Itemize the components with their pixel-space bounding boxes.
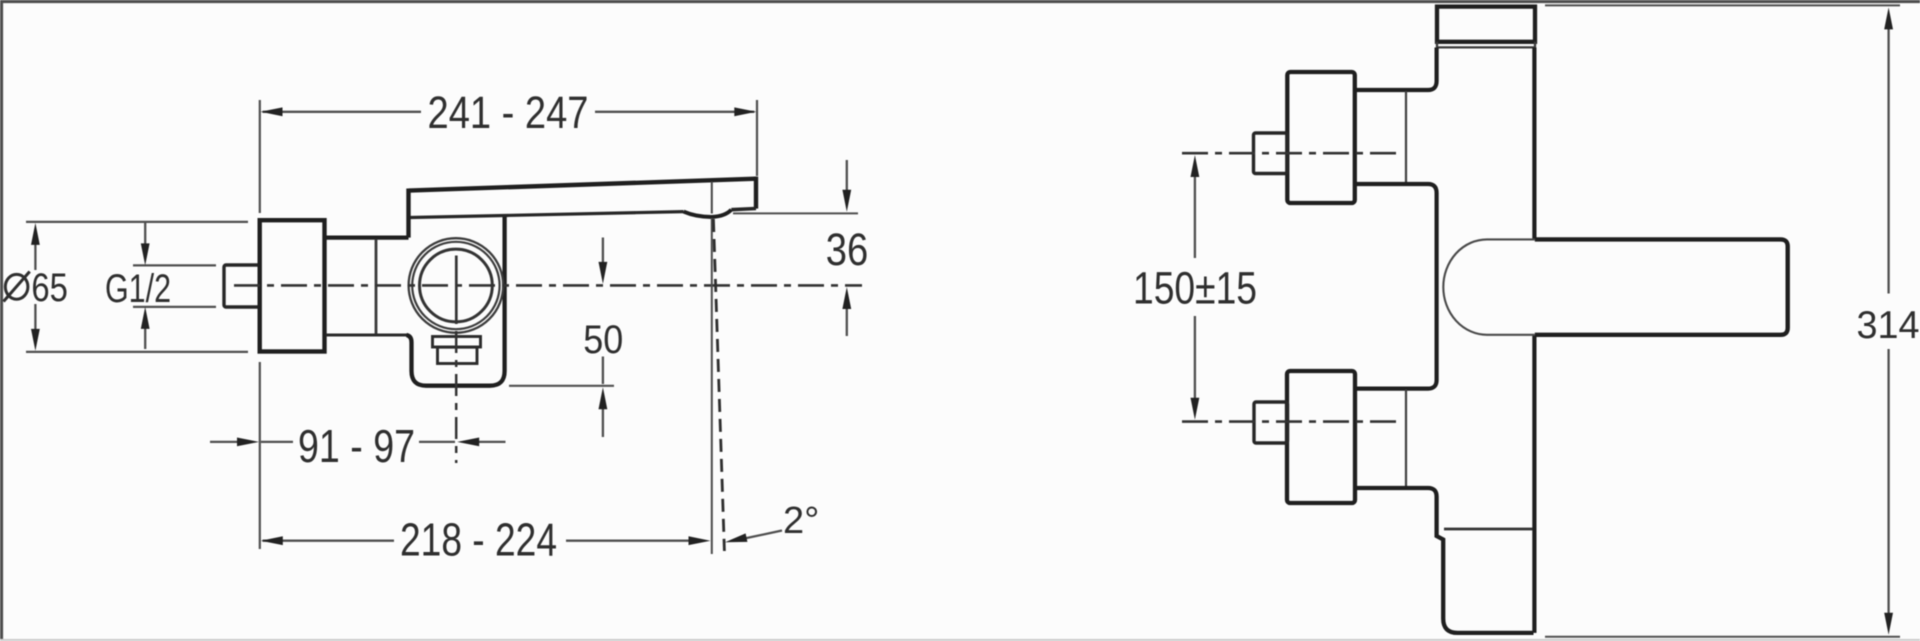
main horizontal centerline xyxy=(234,284,862,287)
upper collar joint line xyxy=(1405,91,1407,183)
dim 241-247 line xyxy=(263,111,755,113)
valve vertical centerline (dashed) xyxy=(455,331,458,463)
G1/2 inlet nub xyxy=(224,265,260,307)
lower collar joint line xyxy=(1405,390,1407,488)
spout bottom right edge xyxy=(731,209,756,210)
svg-text:241 - 247: 241 - 247 xyxy=(428,87,589,138)
dim 50 line segment xyxy=(602,357,604,385)
spout lever left edge xyxy=(406,189,410,238)
dim G1/2 extension top xyxy=(133,264,216,266)
dim 241-247 left arrow xyxy=(261,107,283,116)
dim 314 top arrow xyxy=(1884,7,1893,29)
dim diam65 extension bottom xyxy=(26,351,248,353)
outlet vertical reference line xyxy=(711,218,713,554)
dim 241-247 extension line left xyxy=(259,100,261,213)
dim 150 line lower xyxy=(1194,316,1196,402)
svg-text:91 - 97: 91 - 97 xyxy=(298,420,415,472)
column right edge upper xyxy=(1532,48,1536,240)
dim G1/2 bottom arrow xyxy=(144,329,146,350)
valve crosshair vertical xyxy=(455,256,458,325)
upper connector nub xyxy=(1254,133,1288,174)
dim diam65 bottom arrow xyxy=(34,304,36,330)
dim G1/2 top arrow xyxy=(144,223,146,245)
dim 241-247 extension line right xyxy=(756,100,758,176)
aerator upper rect xyxy=(433,337,481,348)
dim 241-247 right arrow xyxy=(734,107,756,116)
svg-text:314: 314 xyxy=(1857,304,1920,347)
column left edge upper xyxy=(1354,48,1437,91)
spout body xyxy=(1535,239,1788,334)
valve housing outline xyxy=(407,214,505,386)
top cap lower strip xyxy=(1437,42,1535,48)
dim 314 bottom arrow xyxy=(1884,613,1893,635)
frame left border xyxy=(0,0,3,641)
upper collar bottom / column left edge mid xyxy=(1354,184,1437,389)
valve middle ring xyxy=(412,242,499,329)
dim 91-97 line xyxy=(261,441,455,443)
dim 36 bottom arrow xyxy=(846,308,848,336)
upper connector block xyxy=(1287,72,1355,203)
dim 36 extension line xyxy=(733,212,858,214)
dim diam65 extension top xyxy=(26,221,248,223)
dim 314 extension top xyxy=(1545,4,1900,6)
dim 314 line xyxy=(1887,25,1889,618)
frame bottom border xyxy=(0,639,1920,641)
svg-text:36: 36 xyxy=(826,224,869,275)
body top edge xyxy=(325,236,409,240)
valve outer ring xyxy=(409,238,504,333)
column right edge lower xyxy=(1532,335,1536,633)
dim 150 line upper xyxy=(1194,172,1196,258)
dim 218-224 left arrow xyxy=(261,536,283,545)
dim 50 bottom arrow xyxy=(602,408,604,438)
dim 218-224 right arrow xyxy=(689,536,711,545)
dim 314 extension bottom xyxy=(1545,636,1900,638)
column divider line xyxy=(1444,528,1533,531)
svg-text:2°: 2° xyxy=(783,500,819,542)
svg-text:G1/2: G1/2 xyxy=(105,267,171,311)
spout outlet lip xyxy=(684,210,732,217)
svg-text:50: 50 xyxy=(583,318,623,362)
svg-text:150±15: 150±15 xyxy=(1133,263,1257,314)
lower connector centerline xyxy=(1182,420,1397,423)
lower connector nub xyxy=(1254,402,1288,443)
wall flange xyxy=(260,220,325,351)
lower connector block xyxy=(1287,371,1355,503)
spout rounded cap xyxy=(1443,239,1535,334)
frame top border xyxy=(0,0,1920,3)
svg-text:218 - 224: 218 - 224 xyxy=(400,514,557,566)
upper connector centerline xyxy=(1182,152,1397,155)
dim 91-97 right arrow xyxy=(476,441,506,443)
dim G1/2 extension bottom xyxy=(133,306,216,308)
spout lever bottom edge xyxy=(411,212,684,218)
spout tip seam xyxy=(711,182,713,214)
dim 50 top arrow xyxy=(602,238,604,263)
valve inner ring xyxy=(420,249,493,322)
dim 218-224 line xyxy=(263,540,691,542)
body internal divider xyxy=(375,239,378,334)
svg-text:65: 65 xyxy=(31,266,68,310)
dim 50 extension line xyxy=(509,385,614,387)
dim 2deg leader xyxy=(742,531,782,540)
dim 91-97 left arrow xyxy=(210,441,240,443)
dim 36 top arrow xyxy=(846,160,848,190)
dim diam65 top arrow xyxy=(34,243,36,270)
dim 91-97 extension line (flange) xyxy=(259,362,261,549)
body mid bottom edge xyxy=(326,334,407,337)
spout lever top edge xyxy=(409,179,757,191)
top cap xyxy=(1437,7,1535,42)
dim diam65 text xyxy=(5,274,28,299)
spout lever right edge xyxy=(754,177,758,209)
aerator lower rect xyxy=(438,347,478,363)
lower collar bottom / column left edge lower xyxy=(1354,488,1534,633)
outlet 2-degree axis (dashed) xyxy=(713,219,724,551)
